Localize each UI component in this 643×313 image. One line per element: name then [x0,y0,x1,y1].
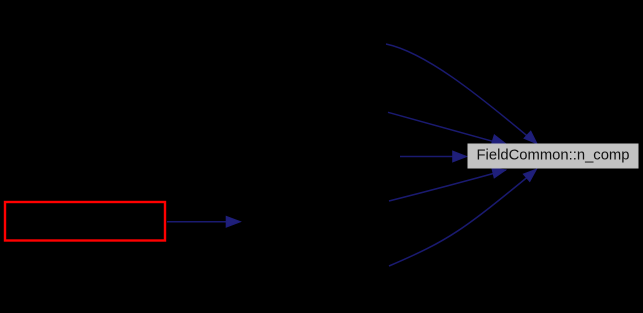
node: red-bordered caller box [5,202,165,241]
wire: curved edge 5 (bottom) into FieldCommon::n_comp [389,171,536,267]
wire: curved edge 1 (top) into FieldCommon::n_comp [386,44,535,143]
wire: straight edge 3 into FieldCommon::n_comp [400,156,455,158]
node: FieldCommon::n_comp (gray filled) [468,144,639,169]
arrowhead edge 3 [453,151,468,162]
arrowhead of edge from red box [226,216,241,227]
arrowhead edge 4 [492,168,507,179]
wire: edge 4 into FieldCommon::n_comp [389,170,506,201]
wire: edge from red box to hidden middle node [167,221,229,223]
svg-text:FieldCommon::n_comp: FieldCommon::n_comp [477,147,630,163]
arrowhead edge 1 [524,131,538,144]
arrowhead edge 2 [491,135,506,146]
arrowhead edge 5 [523,169,537,182]
wire: edge 2 into FieldCommon::n_comp [388,112,504,144]
